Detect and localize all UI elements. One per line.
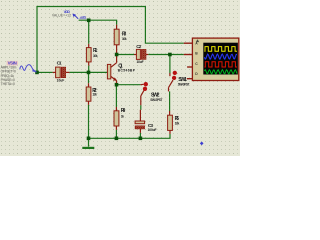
wire R5 bottom: [169, 130, 171, 134]
wire C2 right to scope B: [146, 54, 148, 56]
svg-text:100uF: 100uF: [148, 128, 157, 132]
node base junction: [87, 71, 91, 75]
svg-text:1.2k: 1.2k: [92, 93, 97, 97]
node emitter junction: [115, 83, 119, 87]
node C3 rail junction: [139, 137, 143, 141]
wire bottom rail: [89, 134, 171, 138]
svg-text:10k: 10k: [93, 54, 98, 58]
wire C3 bottom to rail: [139, 129, 141, 133]
node VSIN junction: [35, 71, 39, 75]
svg-text:THETA=0: THETA=0: [1, 82, 15, 86]
node VDD junction: [87, 19, 91, 23]
wire R4 bottom to rail: [115, 126, 117, 130]
node R4 rail junction: [115, 137, 119, 141]
svg-text:1k: 1k: [121, 114, 124, 118]
wire VDD row: [79, 20, 117, 25]
scope trace C red: [204, 62, 237, 67]
ground: [82, 147, 94, 149]
svg-text:10uF: 10uF: [137, 60, 144, 64]
wire VSIN node up and top rail to scope A: [37, 7, 184, 73]
wire emitter row to SW2: [117, 84, 141, 86]
scope trace D green: [204, 70, 237, 74]
wire R1 top from VDD junction: [88, 20, 90, 44]
capacitor C2: [136, 49, 140, 59]
svg-text:SW-SPST: SW-SPST: [178, 82, 190, 86]
node collector junction: [115, 53, 119, 57]
resistor R1: [86, 48, 91, 62]
resistor R5: [168, 115, 173, 130]
svg-text:BC546BP: BC546BP: [118, 69, 136, 73]
wire R2 bottom to ground rail: [88, 101, 90, 105]
capacitor C3: [135, 121, 145, 124]
wire SW2 bottom to C3: [140, 96, 142, 105]
resistor R2: [86, 87, 91, 101]
node scope-B junction: [168, 53, 172, 57]
wire SW1 bottom to R5: [168, 88, 170, 92]
scope pin stub D: [187, 78, 193, 80]
generator VSIN symbol: [20, 65, 37, 73]
switch SW1: [173, 71, 177, 75]
resistor R3: [114, 29, 119, 45]
svg-text:C2: C2: [136, 44, 141, 50]
svg-text:R4: R4: [121, 108, 126, 114]
svg-text:10uF: 10uF: [57, 78, 65, 82]
transistor Q1: [107, 64, 110, 79]
svg-text:10k: 10k: [122, 37, 127, 41]
scope trace A yellow: [204, 47, 237, 52]
wire base row from VSIN to C1: [37, 71, 53, 73]
resistor R4: [114, 111, 119, 126]
ground stub: [88, 138, 90, 146]
capacitor C1: [56, 67, 61, 78]
svg-text:SW-SPST: SW-SPST: [150, 98, 162, 102]
wire emitter down to R4: [115, 85, 117, 107]
wire R2 top: [88, 72, 90, 83]
svg-text:10k: 10k: [175, 121, 180, 125]
marker blue dot: [200, 142, 204, 146]
wire C1 right to base junction to Q1 base: [66, 71, 70, 73]
power terminal VDD: [74, 15, 78, 19]
scope pin stub C: [187, 66, 192, 68]
wire B row: collector junction to C2: [117, 54, 134, 56]
svg-text:C1: C1: [57, 61, 62, 67]
scope trace B blue: [204, 54, 237, 59]
label VSIN: [7, 61, 18, 66]
wire scope A pin stub: [184, 42, 193, 44]
wire R3 bottom / Q1 collector (red): [116, 45, 118, 63]
node ground junction: [87, 137, 91, 141]
wire R1 bottom to base junction: [88, 62, 90, 66]
wire SW1 top column: [169, 55, 171, 74]
wire R3 top pin stub: [116, 25, 118, 30]
oscilloscope instrument: [192, 38, 238, 80]
svg-text:VALUE=+12: VALUE=+12: [52, 13, 71, 17]
switch SW2: [144, 82, 148, 86]
